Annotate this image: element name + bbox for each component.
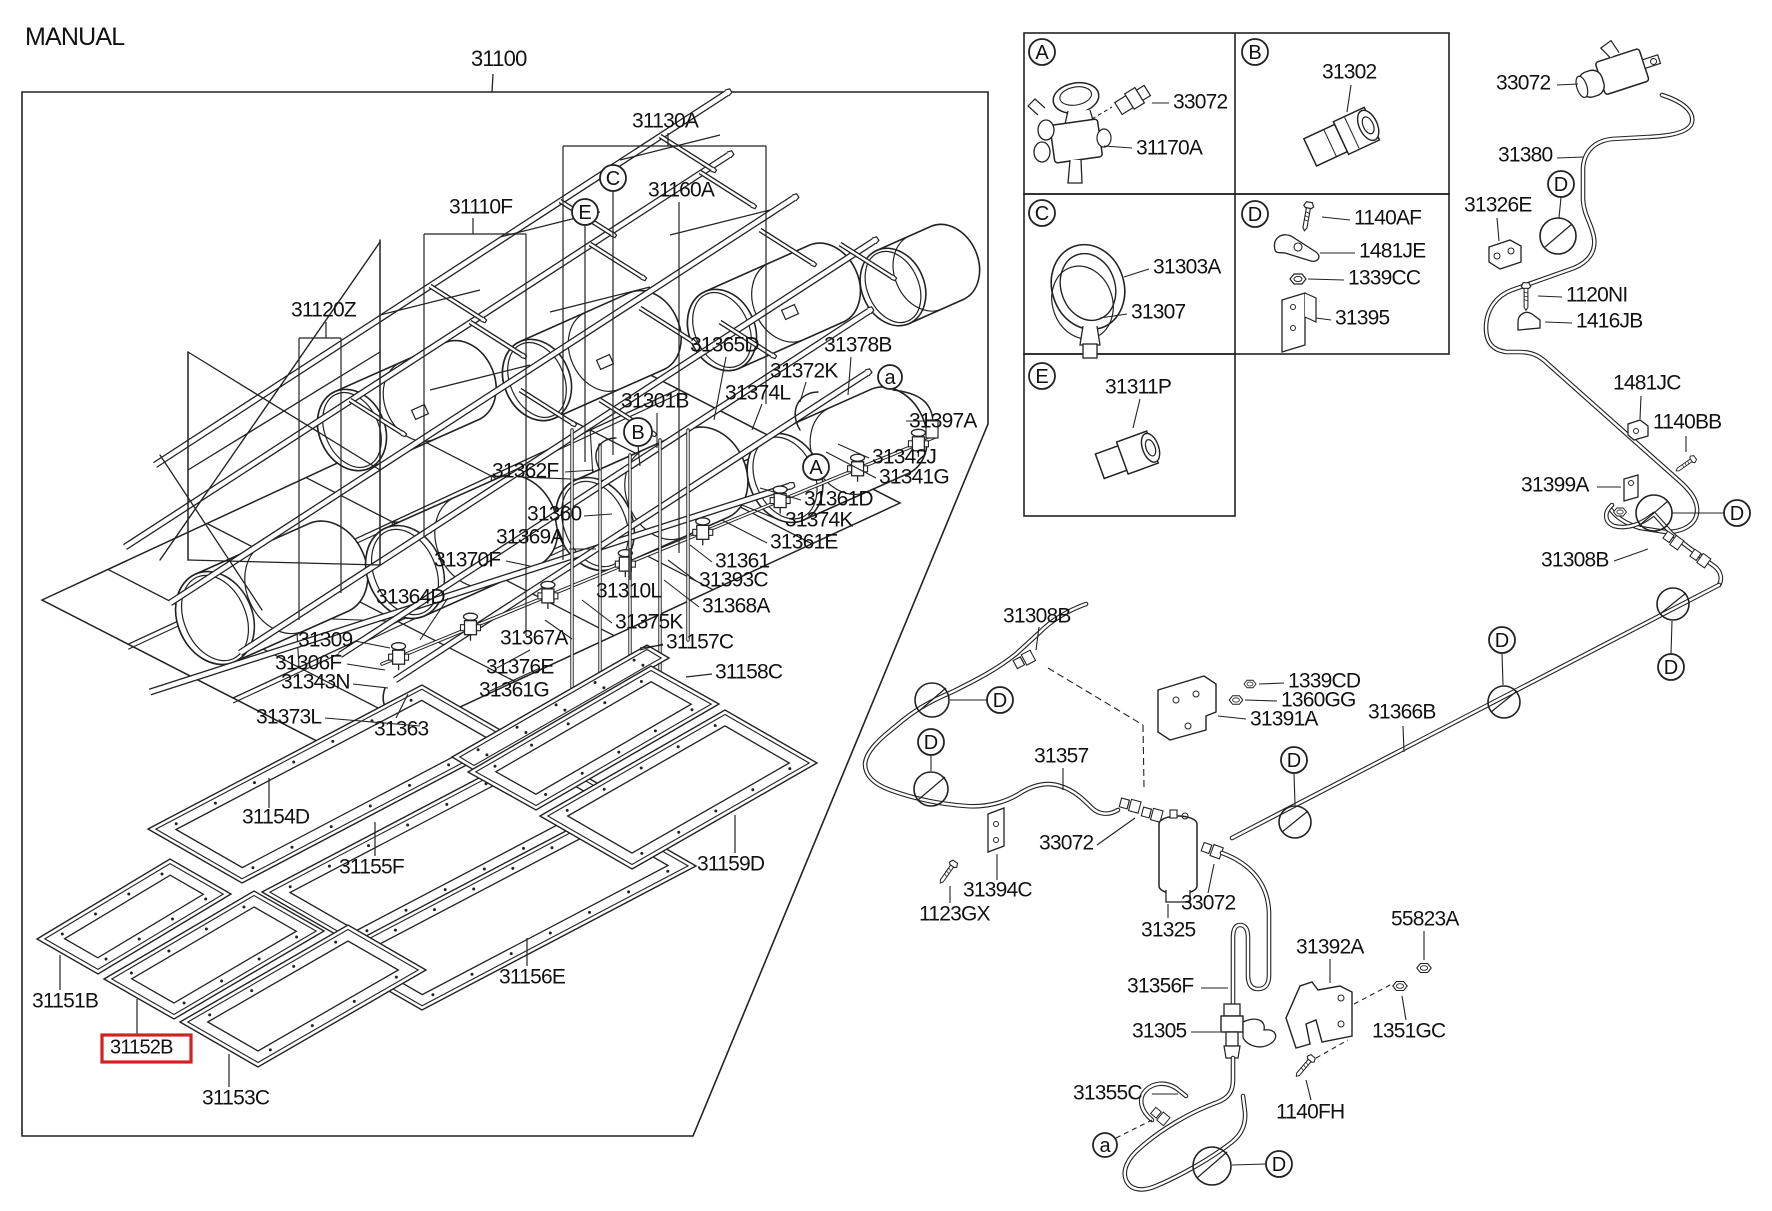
svg-text:C: C: [1035, 203, 1049, 225]
vertical fuel tube: [658, 440, 661, 680]
frame crossbar: [600, 400, 652, 433]
left A-frame truss: [379, 240, 381, 565]
svg-text:1140FH: 1140FH: [1276, 1100, 1344, 1123]
circle a: [878, 365, 902, 389]
bracket 31326E: [1489, 240, 1521, 269]
circle D top-right: [1724, 500, 1750, 526]
svg-text:1416JB: 1416JB: [1576, 309, 1642, 332]
leader C circle: [612, 191, 614, 455]
thin truss brace: [500, 212, 600, 237]
fitting 33072 pair b: [1141, 806, 1163, 822]
svg-text:31159D: 31159D: [697, 852, 765, 875]
nut 1339CD: [1244, 680, 1256, 688]
svg-text:31160A: 31160A: [648, 178, 715, 201]
fitting 31308B b: [1689, 548, 1711, 568]
hose 31363: [383, 688, 432, 713]
label leader: [569, 548, 596, 550]
base frame crossmember: [207, 524, 515, 682]
vertical fuel tube: [570, 430, 573, 692]
svg-text:31391A: 31391A: [1250, 707, 1318, 730]
base X brace: [392, 522, 398, 622]
label leader: [565, 470, 594, 472]
base frame rail inner: [233, 448, 783, 703]
svg-text:B: B: [1248, 42, 1261, 64]
svg-text:31155F: 31155F: [339, 855, 404, 878]
svg-text:D: D: [1495, 630, 1509, 652]
pipe hook near 31362F: [596, 438, 616, 470]
base X brace: [293, 568, 497, 576]
cell E circle: [1029, 363, 1055, 389]
base frame rail: [233, 443, 783, 698]
fitting 31311P: [1094, 429, 1164, 482]
frame crossbar: [470, 322, 522, 355]
bracket window 31130A: [667, 133, 669, 146]
svg-text:D: D: [1287, 750, 1301, 772]
base X brace: [293, 568, 299, 668]
leader 31154D: [268, 778, 270, 808]
tank valve 5: [693, 518, 713, 546]
circle D 31357a: [987, 687, 1013, 713]
vertical fuel tube: [628, 455, 631, 700]
clip 1481JC: [1628, 420, 1648, 440]
svg-text:31360: 31360: [527, 502, 582, 525]
tank strap clamp: [412, 405, 429, 420]
frame crossbar: [560, 201, 612, 234]
clamp clip 1481JE: [1274, 235, 1318, 262]
cell B circle: [1242, 39, 1268, 65]
leader 31155F: [374, 822, 376, 856]
svg-text:31311P: 31311P: [1105, 375, 1171, 398]
svg-text:31361G: 31361G: [479, 678, 549, 701]
frame crossbar: [430, 286, 482, 319]
fitting 33072 in cell A: [1114, 83, 1152, 116]
dashed fit line cell A: [1092, 107, 1112, 119]
svg-text:31365D: 31365D: [690, 333, 759, 356]
svg-text:31154D: 31154D: [242, 805, 310, 828]
fitting 31308B a: [1662, 530, 1684, 550]
svg-text:33072: 33072: [1496, 71, 1551, 94]
svg-text:31374L: 31374L: [725, 381, 790, 404]
manual valve 31305: [1221, 1004, 1276, 1058]
svg-text:31373L: 31373L: [256, 705, 321, 728]
label leader: [664, 580, 699, 607]
cell C circle: [1029, 200, 1055, 226]
label leader: [800, 382, 806, 402]
svg-text:a: a: [1099, 1135, 1111, 1157]
svg-text:a: a: [884, 367, 896, 389]
clamp 1416JB: [1518, 312, 1540, 330]
label leader: [722, 520, 767, 543]
base frame crossmember: [504, 386, 812, 544]
CNG tank rear 3: [688, 243, 861, 371]
svg-text:31152B: 31152B: [110, 1037, 173, 1059]
svg-text:31110F: 31110F: [449, 195, 512, 218]
nut 1360GG: [1229, 696, 1243, 705]
tank valve 7: [848, 454, 868, 482]
base frame crossmember: [405, 432, 713, 590]
svg-text:D: D: [1664, 657, 1678, 679]
bolt 1120NI: [1521, 283, 1531, 311]
label leader: [656, 413, 658, 448]
fitting 33072 right of filter: [1201, 841, 1224, 859]
svg-text:31153C: 31153C: [202, 1086, 270, 1109]
svg-text:33072: 33072: [1181, 891, 1236, 914]
svg-text:C: C: [606, 168, 620, 190]
label leader: [353, 684, 388, 688]
svg-text:31341G: 31341G: [879, 465, 949, 488]
panel 31151B: [37, 859, 231, 974]
leader 31156E: [526, 938, 528, 966]
thin truss brace: [430, 365, 530, 390]
svg-text:31151B: 31151B: [32, 989, 98, 1012]
svg-text:33072: 33072: [1173, 90, 1228, 113]
svg-text:1339CC: 1339CC: [1348, 266, 1421, 289]
fitting 33072 pair a: [1119, 797, 1141, 813]
section circle 31380: [1540, 218, 1576, 254]
svg-text:31394C: 31394C: [963, 878, 1032, 901]
tank valve 3: [538, 581, 558, 609]
tank valve 6: [770, 486, 790, 514]
svg-text:31325: 31325: [1141, 918, 1196, 941]
leader 31151B: [59, 955, 61, 990]
label leader: [752, 404, 762, 430]
label leader: [490, 668, 540, 691]
tank valve 4: [615, 550, 635, 578]
svg-text:31395: 31395: [1335, 306, 1390, 329]
svg-text:31309: 31309: [298, 628, 353, 651]
svg-text:31308B: 31308B: [1003, 604, 1071, 627]
svg-text:1351GC: 1351GC: [1372, 1019, 1446, 1042]
label leader: [355, 641, 390, 648]
panel 31157C seal: [452, 645, 669, 770]
bracket window 31120Z: [325, 322, 327, 338]
frame crossbar: [720, 322, 772, 355]
svg-text:31369A: 31369A: [496, 525, 564, 548]
frame crossbar: [520, 390, 572, 423]
dashed to washers: [1354, 984, 1392, 1004]
svg-text:E: E: [1035, 366, 1048, 388]
label leader: [848, 357, 851, 395]
circle D bottom: [1266, 1151, 1292, 1177]
label leader: [396, 694, 408, 718]
svg-text:D: D: [1248, 204, 1262, 226]
panel 31154D: [148, 685, 516, 883]
svg-text:31364D: 31364D: [376, 585, 445, 608]
svg-text:D: D: [993, 690, 1007, 712]
svg-text:31343N: 31343N: [281, 670, 350, 693]
svg-text:31130A: 31130A: [632, 109, 699, 132]
svg-text:31393C: 31393C: [699, 568, 768, 591]
base X brace: [491, 476, 695, 484]
main rear fuel pipe 31366B: [1232, 585, 1719, 838]
svg-text:31301B: 31301B: [621, 389, 689, 412]
elbow pipe end with fittings 31308B top-right: [1606, 505, 1721, 585]
frame rail 5: [340, 311, 869, 655]
svg-text:31305: 31305: [1132, 1019, 1187, 1042]
washer 1351GC: [1393, 982, 1407, 991]
svg-text:1481JC: 1481JC: [1613, 371, 1681, 394]
outer border box of main assembly view: [22, 92, 988, 1136]
plate 31394C: [988, 808, 1004, 852]
svg-text:31307: 31307: [1131, 300, 1186, 323]
section circle 3: [1279, 806, 1311, 838]
label leader: [506, 561, 530, 566]
circle C: [600, 165, 626, 191]
svg-text:A: A: [809, 457, 823, 479]
solenoid valve 33072 top-right: [1566, 28, 1664, 102]
svg-text:31158C: 31158C: [715, 660, 783, 683]
svg-text:31156E: 31156E: [499, 965, 566, 988]
svg-text:31326E: 31326E: [1464, 193, 1532, 216]
svg-text:D: D: [924, 732, 938, 754]
base X brace: [491, 476, 497, 576]
bracket 31392A: [1286, 982, 1352, 1048]
tank valve 1: [389, 643, 409, 671]
svg-text:31302: 31302: [1322, 60, 1377, 83]
circle D 31357b: [918, 729, 944, 755]
label leader: [545, 620, 572, 639]
leader 31160A: [678, 202, 680, 553]
fitting on 31355C: [1150, 1106, 1170, 1125]
svg-text:31378B: 31378B: [824, 333, 892, 356]
CNG tank front 3: [556, 427, 748, 570]
bracket window 31110F: [472, 218, 474, 234]
label leader: [760, 488, 801, 500]
label leader: [906, 420, 938, 422]
svg-text:33072: 33072: [1039, 831, 1094, 854]
svg-text:31366B: 31366B: [1368, 700, 1436, 723]
frame crossbar: [660, 136, 712, 169]
label leader: [420, 598, 448, 640]
base X brace: [590, 430, 596, 530]
label leader: [838, 444, 869, 458]
label leader: [629, 548, 631, 580]
svg-text:31170A: 31170A: [1136, 136, 1203, 159]
label leader: [690, 545, 712, 562]
thin truss brace: [670, 210, 770, 235]
tank strap clamp: [782, 305, 799, 320]
pipe hook near 31397A: [893, 390, 933, 424]
pipe loop 31355C: [1125, 1058, 1245, 1189]
fitting 31308B left: [1013, 650, 1036, 670]
svg-text:31372K: 31372K: [770, 359, 838, 382]
svg-text:31120Z: 31120Z: [291, 298, 357, 321]
svg-text:1140AF: 1140AF: [1354, 206, 1421, 229]
bracket 31399A: [1624, 475, 1638, 501]
circle D s1: [1658, 654, 1684, 680]
fuel filter 31325: [1159, 810, 1197, 902]
svg-text:1481JE: 1481JE: [1359, 239, 1426, 262]
panel 31159D: [540, 710, 817, 869]
label leader: [668, 560, 696, 581]
panel 31153C: [180, 925, 426, 1067]
frame crossbar: [640, 308, 692, 341]
svg-text:31363: 31363: [374, 717, 429, 740]
leader 31157C: [640, 645, 663, 648]
panel 31152B: [104, 891, 324, 1019]
svg-text:31376E: 31376E: [486, 655, 554, 678]
circle D 31380: [1548, 171, 1574, 197]
section circle 31308B: [1636, 495, 1672, 531]
screw 1140BB: [1674, 454, 1698, 474]
fuel pipe 31380: [1486, 95, 1697, 532]
front sill beam: [150, 486, 790, 692]
base frame crossmember: [306, 478, 614, 636]
frame crossbar: [700, 172, 752, 205]
base frame crossmember: [108, 569, 416, 727]
svg-text:D: D: [1272, 1154, 1286, 1176]
bolt 1140AF: [1299, 201, 1314, 231]
section circle 31355C: [1193, 1147, 1231, 1185]
svg-text:31380: 31380: [1498, 143, 1553, 166]
pipe end nut: [1614, 508, 1627, 516]
cell D circle: [1242, 201, 1268, 227]
svg-text:1140BB: 1140BB: [1653, 410, 1721, 433]
CNG tank rear 4: [861, 224, 979, 325]
label leader: [826, 452, 876, 478]
frame crossbar: [590, 244, 642, 277]
circle D s2: [1489, 627, 1515, 653]
highlighted label 31152B with red box: [102, 1035, 191, 1062]
circle a bottom: [1093, 1133, 1117, 1157]
frame rail 2: [125, 155, 729, 547]
leader 31152B: [136, 999, 138, 1034]
thin truss brace: [550, 287, 650, 312]
svg-text:31355C: 31355C: [1073, 1081, 1142, 1104]
leader 31100: [492, 74, 493, 92]
dash-dot to filter: [1048, 668, 1143, 725]
bolt 1123GX: [937, 859, 959, 886]
svg-text:A: A: [1035, 42, 1049, 64]
svg-text:31361D: 31361D: [804, 487, 873, 510]
leader 31153C: [228, 1054, 230, 1087]
pipe 31357 with end fitting 31308B: [865, 604, 1118, 814]
cell A circle: [1029, 39, 1055, 65]
svg-text:31370F: 31370F: [434, 548, 500, 571]
component table grid: [1024, 33, 1449, 194]
clamp neck 31307: [1080, 326, 1100, 345]
label leader: [584, 514, 612, 516]
section circle 1: [1657, 588, 1689, 620]
CNG tank front 1: [176, 521, 368, 664]
circle E: [572, 199, 598, 225]
label leader: [714, 357, 726, 420]
tank valve 8: [908, 429, 928, 457]
vertical fuel tube: [686, 430, 689, 640]
svg-text:31357: 31357: [1034, 744, 1089, 767]
frame rail 4: [240, 241, 874, 653]
svg-text:31356F: 31356F: [1127, 974, 1193, 997]
tank valve 2: [460, 613, 480, 641]
label leader: [640, 644, 663, 650]
pipe hook near 31372K: [795, 392, 818, 430]
base X brace: [194, 614, 398, 622]
clamp ring 31303A: [1037, 235, 1138, 347]
tank strap clamp: [597, 355, 614, 370]
bracket 31395: [1282, 293, 1305, 352]
base X brace: [392, 522, 596, 530]
svg-text:31374K: 31374K: [785, 508, 853, 531]
frame rail 6: [395, 373, 867, 680]
section circle 31357 b: [914, 772, 948, 806]
CNG tank rear 1: [317, 341, 496, 471]
bolt 1140FH: [1293, 1053, 1317, 1079]
thin truss brace: [620, 135, 720, 160]
frame rail 1: [155, 93, 727, 465]
svg-text:1123GX: 1123GX: [919, 902, 990, 925]
frame crossbar: [760, 230, 812, 263]
leader E circle: [584, 225, 586, 462]
panel 31158C: [468, 666, 719, 810]
section circle 2: [1488, 686, 1520, 718]
manifold pipe front row: [382, 437, 935, 664]
valve assembly 31170A in cell A: [1051, 79, 1102, 117]
svg-text:D: D: [1554, 174, 1568, 196]
svg-text:31368A: 31368A: [702, 594, 770, 617]
coupling 31302 in cell B: [1303, 105, 1384, 168]
circle A: [803, 454, 829, 480]
panel 31155F: [262, 748, 630, 946]
base frame of tank cradle: [42, 345, 900, 758]
svg-text:31100: 31100: [471, 46, 527, 71]
svg-text:31361E: 31361E: [770, 530, 838, 553]
CNG tank rear 2: [502, 291, 681, 421]
svg-text:55823A: 55823A: [1391, 907, 1459, 930]
svg-text:B: B: [631, 422, 644, 444]
svg-text:D: D: [1730, 503, 1744, 525]
circle D s3: [1281, 747, 1307, 773]
svg-text:E: E: [578, 202, 591, 224]
svg-text:31362F: 31362F: [492, 459, 558, 482]
svg-text:31303A: 31303A: [1153, 255, 1221, 278]
leader B circle: [638, 446, 640, 466]
section circle 31357 a: [915, 683, 949, 717]
CNG tank front 2: [366, 475, 558, 618]
svg-text:MANUAL: MANUAL: [25, 23, 125, 51]
leader D: [1672, 512, 1724, 514]
circle B: [624, 418, 652, 446]
base frame rail inner: [128, 394, 678, 649]
svg-text:31157C: 31157C: [666, 630, 734, 653]
vertical fuel tube: [598, 445, 601, 690]
bracket 31391A: [1158, 676, 1216, 740]
svg-text:31392A: 31392A: [1296, 935, 1364, 958]
frame crossbar: [840, 244, 892, 277]
label leader: [347, 664, 385, 670]
frame crossbar: [350, 400, 402, 433]
leader 31158C: [686, 674, 712, 677]
label leader: [742, 505, 782, 521]
label leader: [497, 650, 530, 668]
leader 31159D: [734, 815, 736, 853]
frame rail 3: [170, 198, 794, 603]
panel 31156E: [328, 812, 696, 1010]
nut 1339CC: [1290, 274, 1306, 284]
label leader: [325, 718, 420, 726]
svg-text:31399A: 31399A: [1521, 473, 1589, 496]
nut 55823A: [1417, 964, 1431, 973]
svg-text:31308B: 31308B: [1541, 548, 1609, 571]
svg-text:31310L: 31310L: [596, 579, 661, 602]
svg-text:1120NI: 1120NI: [1566, 283, 1627, 306]
table divider: [1234, 33, 1236, 354]
pipe 31356F: [1222, 853, 1269, 1004]
base frame rail: [128, 389, 678, 644]
CNG tank front 4: [748, 387, 927, 522]
label leader: [582, 600, 612, 623]
thin truss brace: [380, 290, 480, 315]
